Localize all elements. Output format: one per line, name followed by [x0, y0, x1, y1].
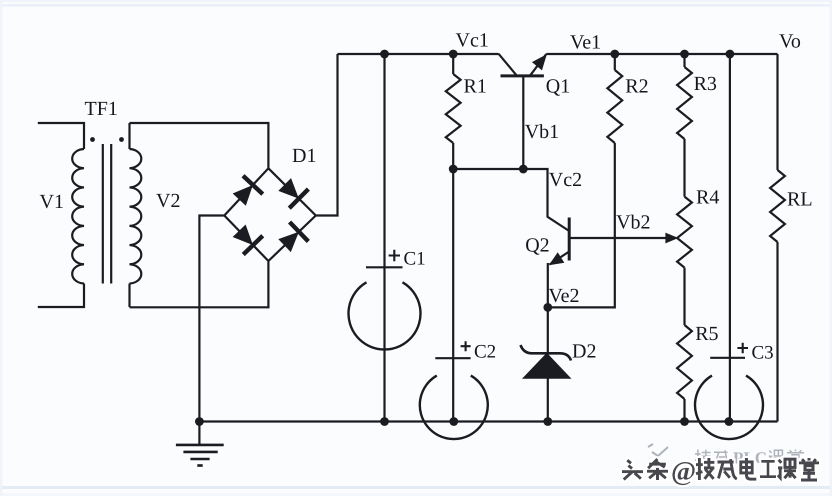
svg-text:D1: D1	[292, 145, 316, 167]
svg-text:Q1: Q1	[546, 76, 570, 98]
svg-text:Vb1: Vb1	[525, 121, 559, 143]
svg-text:Vc1: Vc1	[456, 30, 489, 52]
svg-text:Ve2: Ve2	[548, 285, 579, 307]
svg-text:C3: C3	[752, 343, 774, 364]
svg-text:C2: C2	[474, 342, 496, 363]
svg-text:Vo: Vo	[779, 31, 801, 53]
svg-text:Ve1: Ve1	[570, 32, 601, 54]
svg-text:TF1: TF1	[85, 98, 118, 120]
svg-text:Vc2: Vc2	[549, 169, 582, 191]
svg-text:RL: RL	[787, 189, 813, 211]
svg-text:R2: R2	[625, 76, 648, 98]
svg-text:V2: V2	[156, 190, 180, 212]
svg-text:Q2: Q2	[525, 235, 549, 257]
svg-text:D2: D2	[572, 341, 596, 363]
svg-text:PLC: PLC	[733, 449, 767, 468]
svg-text:@: @	[671, 456, 696, 486]
svg-text:V1: V1	[40, 191, 64, 213]
svg-text:R4: R4	[696, 187, 719, 209]
svg-text:R3: R3	[694, 73, 717, 95]
svg-text:Vb2: Vb2	[616, 212, 650, 234]
svg-text:C1: C1	[404, 249, 426, 270]
svg-text:R5: R5	[695, 323, 718, 345]
svg-text:R1: R1	[464, 76, 487, 98]
